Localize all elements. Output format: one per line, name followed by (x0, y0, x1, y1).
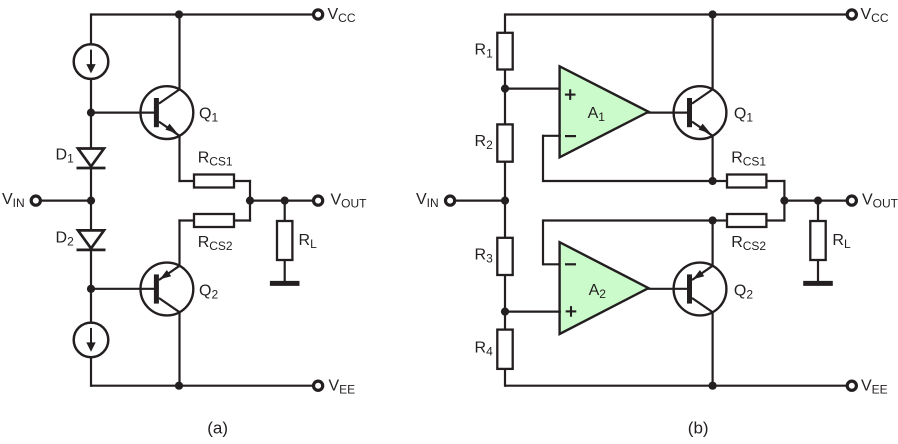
svg-text:Q2: Q2 (199, 283, 218, 302)
svg-text:RL: RL (832, 232, 851, 251)
op-amp A2 (560, 242, 649, 334)
node VEE junction (a) (175, 382, 183, 390)
label R3 (475, 246, 494, 265)
current source I1 (74, 44, 109, 79)
wire RCS2 right (a) (234, 201, 251, 222)
wire R2 to R3 (504, 162, 506, 239)
wire D1 to D2 (a) (90, 168, 92, 230)
resistor RL (b) (810, 221, 825, 260)
diode D2 (77, 230, 106, 250)
wire I1 to D1 (a) (90, 79, 92, 149)
label RCS1 (a) (198, 150, 233, 169)
node RCS1 left junction (b) (709, 177, 717, 185)
svg-text:RL: RL (299, 232, 318, 251)
op-amp A1 (560, 66, 649, 157)
wire RCS1 right (a) (234, 180, 251, 201)
wire RL bottom (a) (284, 260, 286, 281)
ground (b) (803, 281, 833, 286)
wire Q2 emitter (b) (711, 221, 713, 267)
wire RL top (b) (817, 201, 819, 221)
svg-text:R4: R4 (475, 340, 494, 359)
wire top rail (b) (505, 13, 847, 15)
terminal VEE (b) (847, 381, 856, 390)
resistor RCS1 (a) (194, 175, 234, 188)
A1 minus sign (565, 135, 576, 137)
terminal VOUT (a) (314, 196, 323, 205)
svg-text:VOUT: VOUT (862, 191, 898, 210)
label VOUT (b) (862, 191, 898, 210)
label VIN (a) (2, 191, 25, 210)
label D2 (56, 230, 75, 249)
svg-text:Q2: Q2 (734, 283, 753, 302)
wire I2 to rail (a) (90, 357, 92, 387)
wire Q2 collector (a) (178, 312, 180, 386)
transistor Q2 (b) (674, 263, 727, 316)
transistor Q1 (b) (674, 86, 727, 139)
node Q2 base junction (a) (87, 285, 95, 293)
label R2 (475, 133, 494, 152)
wire Q1 base (a) (91, 111, 155, 113)
svg-text:D1: D1 (56, 147, 75, 166)
wire Q1 emitter (a) (178, 135, 195, 182)
node VEE junction (b) (709, 382, 717, 390)
wire VIN (a) (40, 200, 91, 202)
ground (a) (270, 281, 300, 286)
wire A2 plus input (505, 311, 561, 313)
svg-text:Q1: Q1 (199, 105, 218, 124)
wire R1 to R2 (504, 70, 506, 126)
wire top rail (a) (91, 13, 313, 15)
wire out (b) (784, 200, 847, 202)
resistor RCS2 (b) (727, 214, 766, 227)
node out junction (b) (780, 197, 788, 205)
svg-text:VEE: VEE (329, 377, 356, 396)
current source I2 (74, 323, 109, 358)
caption (b) (688, 419, 709, 438)
node VCC junction (b) (709, 10, 717, 18)
node VIN junction (a) (87, 197, 95, 205)
wire out (a) (250, 200, 314, 202)
label VEE (a) (329, 377, 356, 396)
wire A2 output (647, 288, 688, 290)
wire D2 to Q2 base (a) (90, 250, 92, 323)
wire A1 minus feedback (543, 135, 713, 182)
svg-text:R2: R2 (475, 133, 494, 152)
terminal VEE (a) (314, 381, 323, 390)
label VEE (b) (861, 377, 888, 396)
node RL junction (b) (814, 197, 822, 205)
wire R4 to rail (504, 369, 506, 387)
label RCS1 (b) (731, 150, 766, 169)
terminal VCC (a) (314, 10, 323, 19)
wire Q1 collector (a) (178, 15, 180, 90)
transistor Q2 (a) (141, 263, 194, 316)
terminal VIN (a) (31, 196, 40, 205)
wire R1 top (b) (504, 13, 506, 34)
resistor RCS1 (b) (727, 175, 766, 188)
label R4 (475, 340, 494, 359)
svg-text:(b): (b) (688, 419, 709, 438)
svg-text:RCS2: RCS2 (731, 234, 766, 253)
A2 plus sign (566, 306, 577, 317)
node VIN junction (b) (501, 197, 509, 205)
label Q1 (a) (199, 105, 218, 124)
svg-text:Q1: Q1 (734, 105, 753, 124)
wire RL top (a) (284, 201, 286, 221)
label RL (a) (299, 232, 318, 251)
node RCS2 left junction (b) (709, 216, 717, 224)
wire R3 to R4 (504, 275, 506, 331)
caption (a) (207, 419, 228, 438)
label D1 (56, 147, 75, 166)
node A1 plus junction (501, 85, 509, 93)
node RL junction (a) (281, 197, 289, 205)
wire bottom rail (b) (505, 385, 847, 387)
node Q1 base junction (a) (87, 109, 95, 117)
label Q2 (a) (199, 283, 218, 302)
terminal VCC (b) (847, 10, 856, 19)
label Q2 (b) (734, 283, 753, 302)
label VIN (b) (416, 191, 439, 210)
transistor Q1 (a) (141, 86, 194, 139)
resistor RCS2 (a) (194, 214, 234, 227)
node VCC junction (a) (175, 10, 183, 18)
wire RCS2 left (b) (713, 219, 727, 221)
wire RCS1 right (b) (766, 180, 785, 201)
terminal VOUT (b) (847, 196, 856, 205)
wire A1 output (647, 111, 688, 113)
resistor RL (a) (277, 221, 292, 260)
diode D1 (77, 149, 106, 169)
label VOUT (a) (331, 191, 368, 210)
A2 minus sign (565, 263, 576, 265)
wire A1 plus input (505, 87, 561, 89)
node A2 plus junction (501, 308, 509, 316)
svg-text:VCC: VCC (861, 6, 889, 25)
wire Q2 base (a) (91, 288, 155, 290)
svg-text:VIN: VIN (416, 191, 439, 210)
svg-text:VIN: VIN (2, 191, 25, 210)
label A1 (588, 105, 606, 124)
resistor R1 (497, 33, 512, 70)
svg-text:VOUT: VOUT (331, 191, 368, 210)
label VCC (b) (861, 6, 889, 25)
svg-text:RCS1: RCS1 (198, 150, 233, 169)
label RL (b) (832, 232, 851, 251)
wire VIN (b) (455, 200, 505, 202)
label A2 (589, 282, 607, 301)
svg-text:VEE: VEE (861, 377, 888, 396)
resistor R3 (497, 238, 512, 275)
svg-text:VCC: VCC (328, 6, 356, 25)
wire RCS2 right (b) (766, 201, 785, 222)
wire Q2 collector (b) (711, 312, 713, 386)
label RCS2 (b) (731, 234, 766, 253)
svg-text:RCS1: RCS1 (731, 150, 766, 169)
svg-text:(a): (a) (207, 419, 228, 438)
label Q1 (b) (734, 105, 753, 124)
label R1 (475, 41, 494, 60)
wire Q1 collector (b) (711, 15, 713, 90)
node out junction (a) (246, 197, 254, 205)
A1 plus sign (565, 89, 576, 100)
resistor R4 (497, 330, 512, 369)
label RCS2 (a) (198, 234, 233, 253)
wire bottom rail (a) (91, 385, 313, 387)
wire Q1 emitter (b) (711, 135, 713, 181)
label VCC (a) (328, 6, 356, 25)
svg-text:R1: R1 (475, 41, 494, 60)
resistor R2 (497, 124, 512, 161)
wire left branch upper (a) (90, 13, 92, 44)
wire RCS2 left (a) (178, 219, 195, 266)
svg-text:D2: D2 (56, 230, 75, 249)
terminal VIN (b) (446, 196, 455, 205)
svg-text:RCS2: RCS2 (198, 234, 233, 253)
wire RCS1 left (b) (713, 180, 727, 182)
wire RL bottom (b) (817, 260, 819, 281)
wire A2 minus feedback (543, 219, 713, 265)
svg-text:R3: R3 (475, 246, 494, 265)
